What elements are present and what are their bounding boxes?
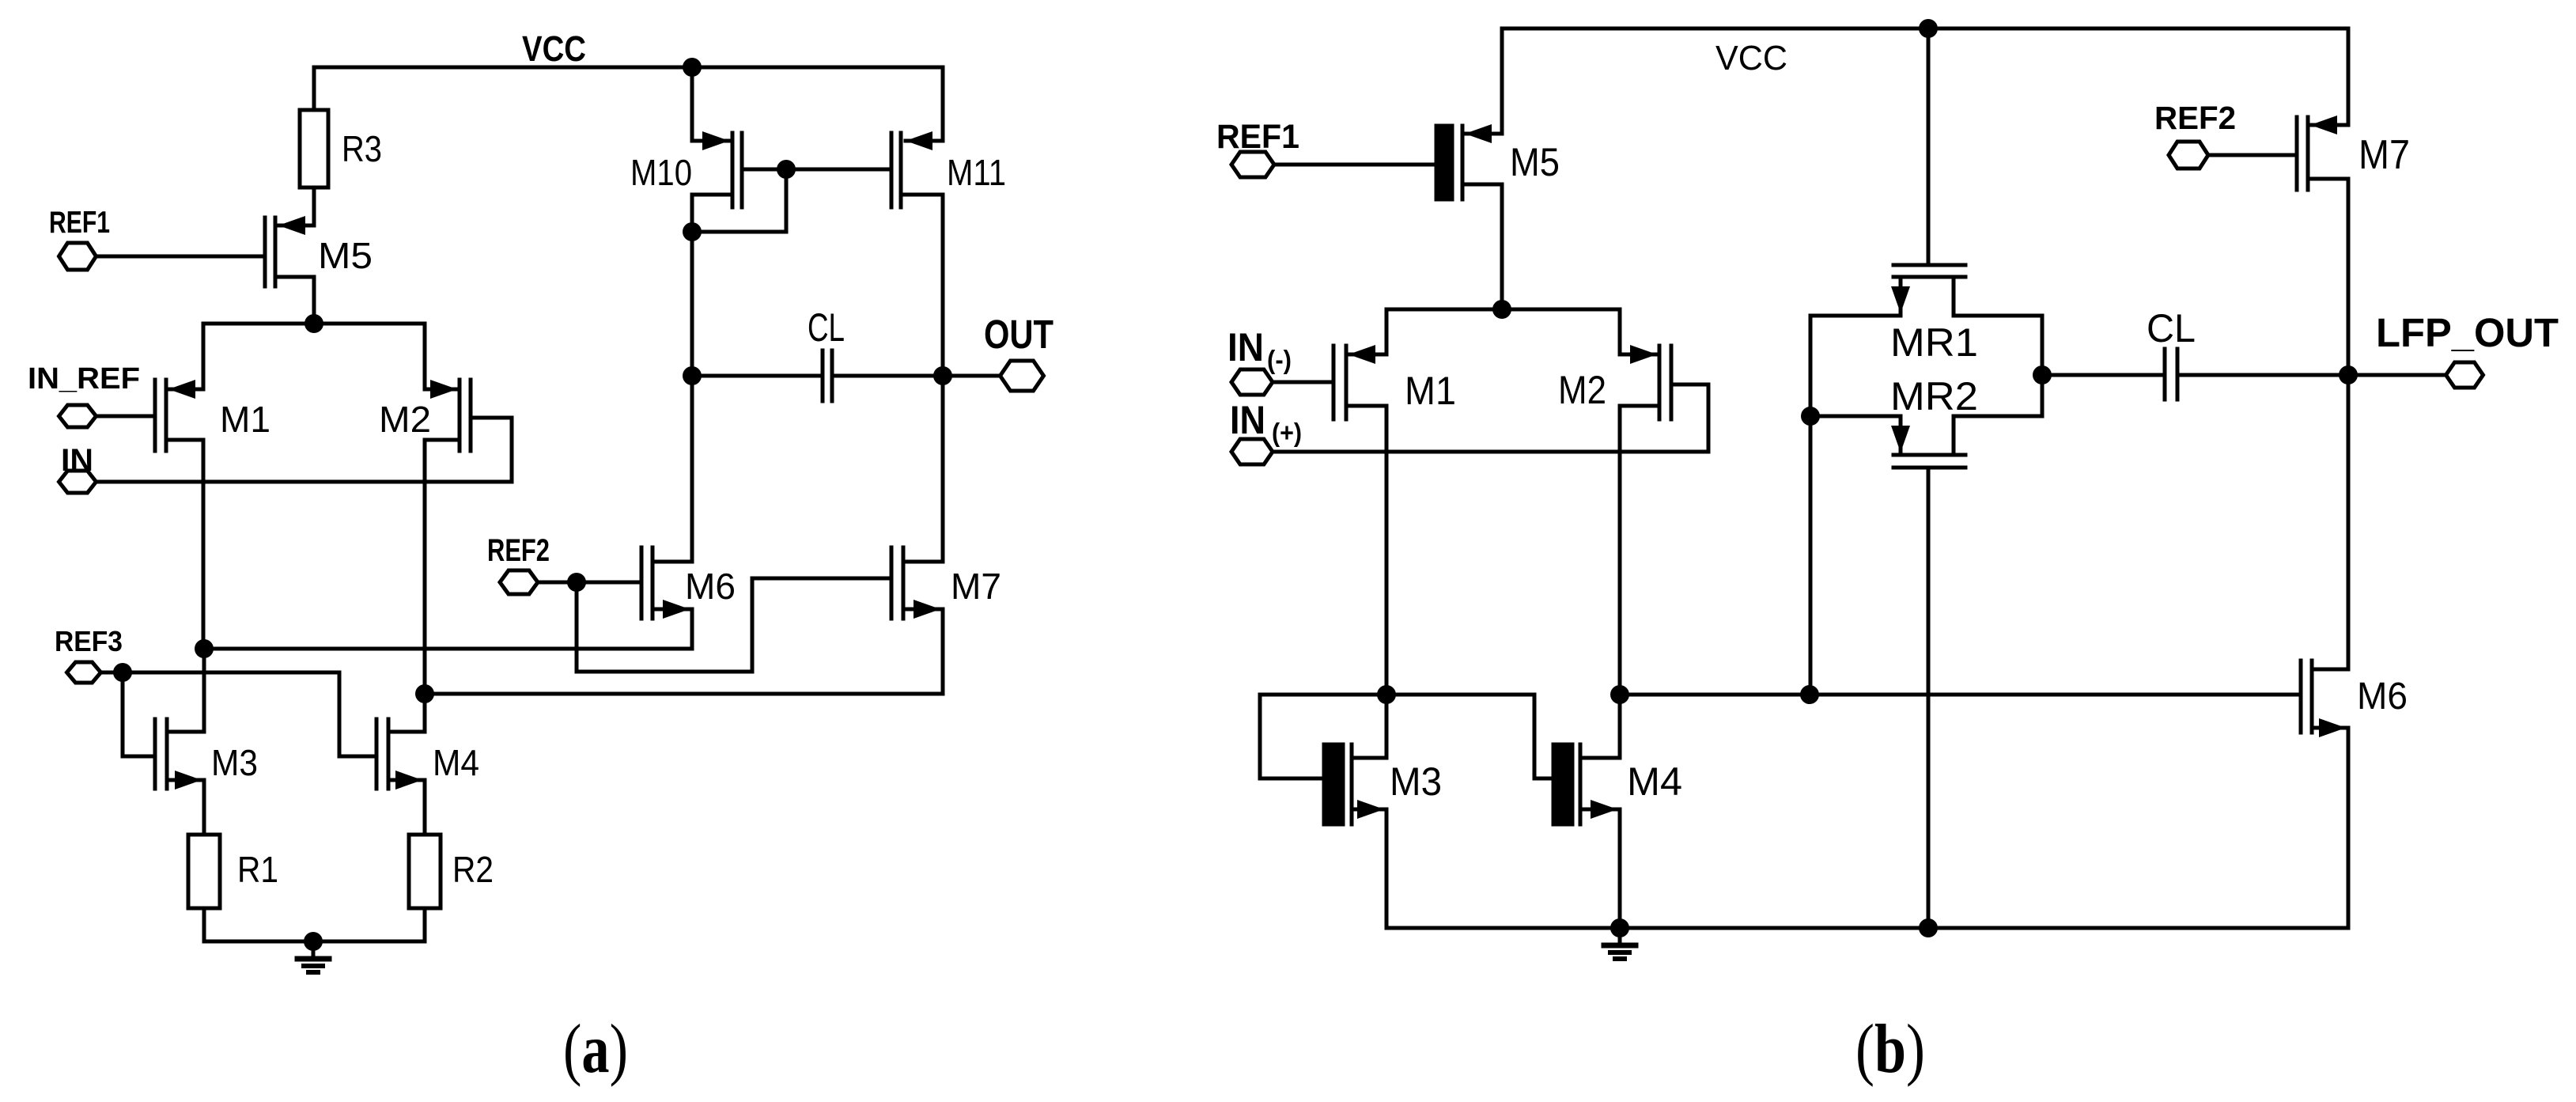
capacitor CL (a) — [692, 305, 943, 401]
wire tail rail (b) — [1386, 309, 1620, 354]
node REF3 junction — [113, 663, 132, 682]
svg-text:M4: M4 — [1627, 759, 1682, 804]
wire REF1 to M5 gate — [96, 255, 265, 259]
wire M2/M4 node to M6 gate — [1620, 693, 2301, 697]
wire REF3 stub — [100, 671, 123, 675]
wire M2 drain down (b) — [1618, 406, 1622, 695]
resistor R3 — [300, 110, 382, 187]
ground symbol (a) — [297, 941, 329, 972]
wire LFP node to M6 drain — [2347, 375, 2351, 669]
port REF3 — [55, 625, 123, 683]
wire MR2 gate stem — [1927, 468, 1931, 928]
svg-text:M5: M5 — [318, 235, 373, 276]
node M2/M4 junction (b) — [1610, 685, 1629, 704]
node M2/M4/M7 junction — [415, 684, 434, 703]
wire REF3 to M3 gate — [123, 672, 155, 756]
transistor M5 (b) — [1436, 28, 1560, 199]
wire VCC to R3 — [312, 67, 316, 110]
svg-text:M11: M11 — [947, 152, 1006, 193]
port REF1 (b) — [1216, 118, 1299, 177]
svg-text:M10: M10 — [630, 152, 692, 193]
wire REF3 to M4 gate — [123, 672, 376, 756]
svg-text:M5: M5 — [1510, 140, 1560, 184]
wire MR1 top-right rail — [1954, 314, 2042, 318]
svg-text:OUT: OUT — [984, 312, 1053, 357]
node MR2 stem/bus junction — [1919, 918, 1938, 937]
port REF2 (b) — [2154, 100, 2236, 169]
wire REF2 to M7 gate (b) — [2209, 153, 2297, 157]
wire REF1 to M5 gate (b) — [1274, 163, 1436, 167]
wire M7 source to LFP node — [2347, 179, 2351, 375]
wire M3 source to bus (b) — [1385, 809, 1389, 928]
wire M4 source to bus (b) — [1618, 809, 1622, 928]
node MR right/CL junction — [2033, 365, 2052, 384]
svg-text:M2: M2 — [379, 399, 431, 440]
svg-text:CL: CL — [808, 305, 845, 350]
wire gate tie to M10 source — [692, 169, 786, 232]
svg-text:M6: M6 — [685, 566, 736, 607]
svg-text:IN: IN — [1227, 325, 1264, 369]
wire IN to M2 gate — [96, 418, 512, 482]
port REF1 (a) — [49, 206, 110, 270]
svg-text:M7: M7 — [2358, 132, 2410, 178]
svg-text:M7: M7 — [951, 566, 1001, 607]
svg-text:CL: CL — [2147, 306, 2196, 350]
node VCC/M10 junction — [683, 58, 702, 77]
wire VCC rail (b) — [1502, 27, 2348, 31]
wire M7 source to M2/M4 node — [425, 609, 943, 694]
svg-text:R2: R2 — [452, 849, 494, 890]
transistor M3 (b) — [1324, 695, 1442, 824]
wire VCC rail (a) — [314, 66, 943, 70]
wire tail rail (a) — [203, 324, 425, 389]
transistor M2 (a) — [379, 380, 471, 451]
svg-text:M6: M6 — [2357, 676, 2408, 718]
ground symbol (b) — [1604, 928, 1636, 959]
node LFP_OUT junction — [2339, 365, 2358, 384]
svg-text:VCC: VCC — [522, 28, 586, 69]
node gate tie junction — [777, 160, 796, 179]
node REF2 junction (a) — [567, 573, 586, 592]
svg-text:IN: IN — [61, 443, 93, 478]
transistor M4 (b) — [1553, 695, 1682, 824]
transistor M11 — [891, 67, 1006, 376]
svg-text:REF2: REF2 — [487, 533, 550, 568]
transistor M4 (a) — [376, 694, 479, 790]
transistor M2 (b) — [1558, 345, 1671, 419]
svg-text:R3: R3 — [342, 128, 382, 169]
svg-text:M4: M4 — [433, 742, 479, 783]
wire MR1 top-left rail — [1810, 314, 1901, 318]
svg-text:REF3: REF3 — [55, 625, 123, 657]
wire MR2 bottom-right rail — [1954, 415, 2042, 418]
net label VCC (a) — [522, 28, 586, 69]
node M10 source junction — [683, 222, 702, 241]
node OUT junction — [933, 366, 952, 385]
node CL left junction (a) — [683, 366, 702, 385]
svg-text:IN_REF: IN_REF — [28, 362, 140, 396]
wire R3 to M5 drain — [312, 187, 316, 225]
resistor R2 — [409, 835, 494, 908]
net label VCC (b) — [1715, 39, 1787, 78]
svg-text:REF1: REF1 — [1216, 118, 1299, 156]
svg-text:M2: M2 — [1558, 368, 1606, 412]
caption (a) — [563, 1011, 628, 1088]
wire M3 source to R1 — [202, 780, 206, 835]
transistor M10 — [630, 67, 742, 232]
node M1/M3/M6 junction — [195, 639, 214, 658]
transistor M6 (b) — [2301, 661, 2408, 737]
wire M6 source to M1/M3 node — [204, 609, 692, 649]
port REF2 (a) — [487, 533, 550, 594]
transistor M7 (b) — [2297, 28, 2410, 190]
wire IN_REF to M1 gate — [96, 415, 155, 418]
svg-text:M1: M1 — [1405, 369, 1456, 413]
wire IN- to M1 gate — [1273, 381, 1333, 384]
wire ground bus (a) — [204, 940, 425, 944]
transistor M5 (a) — [265, 216, 373, 324]
transistor MR1 — [1890, 265, 1978, 365]
svg-text:(a): (a) — [563, 1011, 628, 1088]
svg-text:VCC: VCC — [1715, 39, 1787, 78]
svg-text:M3: M3 — [211, 742, 258, 783]
wire M10/M11 gate tie — [742, 168, 891, 172]
svg-text:REF2: REF2 — [2154, 100, 2236, 136]
port IN — [59, 443, 96, 493]
wire OUT column to M7 drain — [941, 376, 945, 562]
wire bottom bus (b) — [1386, 926, 2348, 930]
node tail junction (b) — [1492, 300, 1511, 319]
caption (b) — [1855, 1011, 1925, 1088]
node M1/M3 junction (b) — [1377, 685, 1396, 704]
port IN(-) — [1227, 325, 1292, 395]
wire IN+ to M2 gate — [1273, 384, 1708, 452]
svg-text:IN: IN — [1230, 398, 1265, 442]
svg-text:LFP_OUT: LFP_OUT — [2376, 310, 2559, 355]
transistor M7 (a) — [891, 547, 1001, 619]
wire M3 gate loop (b) — [1260, 695, 1386, 778]
transistor M1 (b) — [1333, 345, 1456, 419]
node ground junction (b) — [1610, 918, 1629, 937]
wire MR2 bottom-left rail — [1810, 415, 1901, 418]
node tail junction (a) — [305, 314, 323, 333]
wire MR left column — [1809, 316, 1813, 695]
wire M3/M4 gate tie (b) — [1386, 695, 1553, 778]
port IN_REF — [28, 362, 140, 427]
port OUT — [943, 312, 1053, 391]
svg-text:(+): (+) — [1272, 418, 1302, 447]
wire M1 drain down (b) — [1385, 406, 1389, 695]
wire REF2 to M7 gate — [577, 578, 891, 672]
wire CL node to M6 drain — [690, 376, 694, 562]
port LFP_OUT — [2348, 310, 2559, 388]
transistor M6 (a) — [641, 547, 736, 619]
transistor M3 (a) — [155, 649, 258, 790]
svg-text:REF1: REF1 — [49, 206, 110, 240]
node MR2 left junction — [1801, 407, 1820, 426]
svg-text:(b): (b) — [1855, 1011, 1925, 1088]
wire MR right column — [2041, 316, 2045, 416]
wire M6 source to bus (b) — [2347, 728, 2351, 928]
wire M5 source to tail (b) — [1500, 184, 1504, 309]
svg-text:MR1: MR1 — [1890, 320, 1978, 365]
wire M2 drain down (a) — [423, 440, 427, 694]
transistor M1 (a) — [155, 380, 270, 451]
node VCC/MR1 junction — [1919, 19, 1938, 38]
wire R2 to ground bus — [423, 908, 427, 941]
wire M4 source to R2 — [423, 780, 427, 835]
svg-text:(-): (-) — [1267, 345, 1292, 374]
transistor MR2 — [1890, 374, 1978, 468]
svg-text:R1: R1 — [237, 849, 278, 890]
svg-text:M1: M1 — [220, 399, 270, 440]
svg-text:M3: M3 — [1390, 759, 1442, 804]
wire M1 drain down (a) — [202, 440, 206, 649]
wire MR1 gate stem — [1927, 28, 1931, 265]
svg-text:MR2: MR2 — [1890, 374, 1978, 418]
resistor R1 — [188, 835, 278, 908]
wire REF2 to M6 gate — [538, 581, 641, 585]
node MR column junction — [1800, 685, 1819, 704]
wire M10 column to CL node — [690, 232, 694, 376]
wire R1 to ground bus — [202, 908, 206, 941]
node ground junction (a) — [304, 932, 323, 951]
capacitor CL (b) — [2042, 306, 2348, 400]
port IN(+) — [1230, 398, 1302, 464]
